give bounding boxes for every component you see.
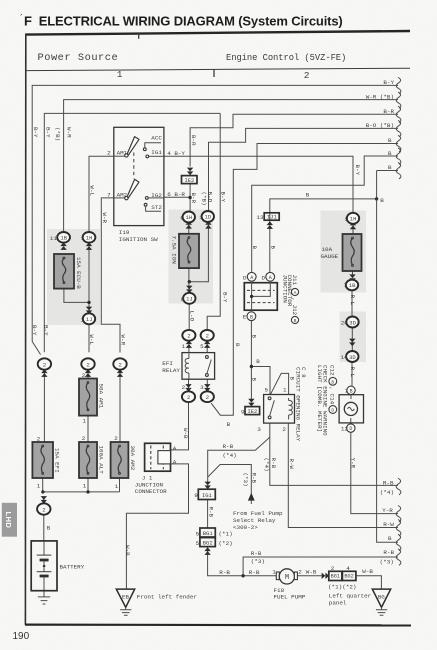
wire comb meter Y-R to right edge bbox=[351, 432, 398, 514]
svg-text:A: A bbox=[250, 275, 253, 281]
svg-text:EB: EB bbox=[122, 594, 129, 601]
svg-text:(*1): (*1) bbox=[219, 530, 233, 537]
fuse 50A AM1 bbox=[79, 379, 97, 416]
svg-text:E: E bbox=[243, 314, 247, 321]
svg-text:W-R: W-R bbox=[101, 213, 108, 224]
svg-text:(*3): (*3) bbox=[380, 558, 394, 565]
fuse 100A ALT bbox=[79, 442, 97, 478]
ignition switch ST2 contact bbox=[144, 203, 147, 206]
svg-text:B-O (*B): B-O (*B) bbox=[366, 122, 394, 129]
fuel pump motor F18 bbox=[276, 572, 279, 580]
svg-text:, C14: , C14 bbox=[329, 387, 336, 405]
connector 5 BG1 box bbox=[200, 528, 215, 537]
bottom border bbox=[25, 623, 411, 626]
svg-text:2: 2 bbox=[114, 435, 118, 442]
fuse 10A GAUGE chain: connector 5(1H) bbox=[350, 222, 356, 230]
ignition switch mechanical link bbox=[133, 153, 135, 179]
svg-text:W-B: W-B bbox=[182, 428, 189, 439]
svg-text:AM1: AM1 bbox=[117, 149, 128, 156]
svg-text:5: 5 bbox=[196, 530, 200, 537]
wire circuit-opening relay pin3 R-B down bbox=[270, 423, 398, 485]
svg-text:GAUGE: GAUGE bbox=[321, 253, 339, 260]
junction dot bus ALT bbox=[86, 490, 89, 493]
svg-text:R-B: R-B bbox=[270, 458, 277, 469]
svg-text:3D: 3D bbox=[349, 319, 356, 326]
circuit opening relay box bbox=[264, 395, 295, 424]
svg-text:IJ1: IJ1 bbox=[267, 214, 278, 221]
svg-text:15A EFI: 15A EFI bbox=[53, 448, 60, 473]
junction dot B bbox=[375, 197, 378, 200]
svg-text:Y-R: Y-R bbox=[349, 458, 356, 469]
svg-text:(*3): (*3) bbox=[251, 558, 265, 565]
connector circle 2 (EFI relay top left) bbox=[186, 340, 192, 348]
wire ECU-B fuse bottom to junction bbox=[64, 289, 89, 303]
wire 1H down through junction to 1J bbox=[88, 243, 90, 314]
wire fuel pump to BG1 bbox=[295, 575, 322, 577]
svg-text:3D: 3D bbox=[349, 354, 356, 361]
connector circle 2 (left) bbox=[32, 342, 40, 355]
fuse 15A ECU-B bbox=[54, 254, 74, 289]
svg-text:B-O: B-O bbox=[207, 192, 214, 203]
svg-text:R-B: R-B bbox=[219, 569, 230, 576]
svg-text:B-Y: B-Y bbox=[220, 192, 227, 203]
svg-text:R-B: R-B bbox=[383, 480, 394, 487]
connector circle 2 (EFI relay bottom right) bbox=[204, 384, 210, 392]
svg-text:2: 2 bbox=[43, 361, 46, 368]
svg-text:2: 2 bbox=[182, 384, 186, 391]
junction connector J11/J12 box bbox=[247, 272, 256, 281]
svg-text:(*4): (*4) bbox=[223, 452, 237, 459]
svg-text:1B: 1B bbox=[349, 282, 356, 289]
svg-text:CIRCUIT OPENING RELAY: CIRCUIT OPENING RELAY bbox=[294, 367, 301, 442]
svg-text:R-L: R-L bbox=[349, 367, 356, 378]
connector 1(1J) bbox=[86, 307, 92, 315]
svg-text:B-R: B-R bbox=[190, 135, 197, 146]
svg-text:W-R: W-R bbox=[65, 127, 72, 138]
outer frame: top border bbox=[25, 31, 410, 35]
svg-text:BG: BG bbox=[378, 594, 385, 601]
svg-text:1J: 1J bbox=[86, 316, 93, 323]
svg-text:(*2): (*2) bbox=[342, 584, 356, 591]
ignition switch AM2 lever bbox=[114, 197, 127, 199]
svg-text:11: 11 bbox=[50, 235, 58, 242]
wire from fuel pump select relay R-B(*3) bbox=[208, 465, 252, 494]
connector IJ1 pin13 box bbox=[264, 213, 279, 220]
svg-text:BG1: BG1 bbox=[203, 530, 214, 537]
right edge continuation squiggles top bbox=[396, 77, 401, 94]
wire B-R right-edge loop down to IE2 bbox=[190, 114, 398, 166]
wire BG2 to BG ground bbox=[356, 576, 382, 589]
wire ign IG1 pin4 B-Y to gauge fuse bbox=[164, 156, 353, 213]
svg-text:13: 13 bbox=[256, 214, 264, 221]
svg-text:1H: 1H bbox=[86, 234, 93, 241]
connector 11(1B) bbox=[60, 242, 66, 250]
LHD tab bbox=[2, 503, 17, 537]
connector 7(1B) bbox=[349, 274, 355, 282]
svg-text:2: 2 bbox=[37, 436, 41, 443]
svg-text:B-R: B-R bbox=[383, 108, 394, 115]
svg-text:EFI: EFI bbox=[162, 360, 173, 367]
wire R-B(*3) to right edge bbox=[243, 557, 398, 576]
wire B-Y top loop from left column to right edge bbox=[32, 85, 398, 341]
connector circle 2 (EFI relay bottom left) bbox=[185, 384, 191, 392]
svg-text:B: B bbox=[331, 379, 334, 385]
svg-text:C12: C12 bbox=[329, 365, 336, 376]
svg-text:1: 1 bbox=[117, 69, 123, 80]
ignition switch IG2 contact bbox=[145, 197, 148, 200]
connector circle 2 (right) bbox=[117, 369, 123, 377]
svg-text:BG2: BG2 bbox=[203, 540, 213, 547]
svg-text:RELAY: RELAY bbox=[162, 367, 180, 374]
svg-text:F ELECTRICAL WIRING DIAGRAM (: F ELECTRICAL WIRING DIAGRAM (System Circ… bbox=[24, 14, 343, 29]
svg-text:BATTERY: BATTERY bbox=[60, 564, 85, 571]
svg-text:1H: 1H bbox=[350, 215, 357, 222]
svg-text:Front left fender: Front left fender bbox=[137, 594, 197, 601]
svg-text:M: M bbox=[285, 574, 289, 582]
connector circle 2 (EFI relay top right) bbox=[204, 340, 210, 348]
svg-text:1: 1 bbox=[272, 569, 276, 576]
connector 14(3D) bbox=[346, 351, 358, 362]
connector IE2 pin10 box bbox=[187, 168, 193, 176]
svg-text:B-Y: B-Y bbox=[45, 127, 52, 138]
svg-text:2: 2 bbox=[187, 333, 190, 340]
left border bbox=[24, 34, 26, 625]
svg-text:BG2: BG2 bbox=[344, 574, 353, 580]
svg-text:2: 2 bbox=[82, 435, 86, 442]
svg-text:B: B bbox=[256, 358, 260, 365]
svg-text:D: D bbox=[349, 426, 352, 432]
junction dot B-R bbox=[188, 196, 191, 199]
svg-text:1: 1 bbox=[37, 483, 41, 490]
svg-text:(*B): (*B) bbox=[54, 127, 61, 141]
wire 1J(8) to EFI relay circle bbox=[188, 304, 190, 330]
svg-text:W-R (*B): W-R (*B) bbox=[366, 94, 394, 101]
svg-text:Power Source: Power Source bbox=[38, 52, 119, 64]
wire gauge fuse chain bbox=[351, 224, 353, 424]
wire IE2 to junction to 1H fuse bbox=[189, 184, 191, 213]
svg-text:AM2: AM2 bbox=[117, 192, 128, 199]
wire D(A)/E(B) junction block to relays bbox=[251, 321, 270, 400]
svg-text:(*4): (*4) bbox=[263, 458, 270, 472]
svg-text:R-B: R-B bbox=[250, 473, 257, 484]
svg-text:R-B: R-B bbox=[207, 507, 214, 518]
svg-text:1H: 1H bbox=[186, 214, 193, 221]
wire ign AM2 pin7 W-R bbox=[101, 198, 120, 353]
fuel pump to BG1 arrows bbox=[322, 573, 330, 579]
column tick 1|2 bbox=[213, 69, 215, 77]
svg-text:W-B: W-B bbox=[362, 568, 373, 575]
svg-text:LHD: LHD bbox=[4, 512, 13, 529]
stipple around GAUGE fuse block bbox=[321, 211, 367, 293]
svg-text:2: 2 bbox=[298, 569, 302, 576]
wire B to junction connector D(A) left bbox=[252, 156, 398, 272]
fuse 15A EFI bbox=[32, 442, 53, 478]
wire J1 lower A to EB ground bbox=[126, 464, 188, 589]
svg-text:ACC: ACC bbox=[151, 135, 162, 142]
EFI relay box bbox=[182, 353, 215, 380]
fuse 10A GAUGE bbox=[343, 234, 362, 271]
svg-text:9: 9 bbox=[194, 492, 198, 499]
svg-text:B-Y: B-Y bbox=[43, 325, 50, 336]
svg-text:7.5A IGN: 7.5A IGN bbox=[171, 236, 178, 265]
wire ign AM1 pin2 W-L bbox=[89, 156, 114, 232]
svg-text:1: 1 bbox=[82, 418, 86, 425]
svg-text:, J12: , J12 bbox=[291, 298, 298, 316]
svg-text:B: B bbox=[388, 150, 392, 157]
svg-text:D: D bbox=[331, 408, 334, 414]
wire B via IJ1 down to D(A) right bbox=[270, 171, 398, 273]
svg-text:1: 1 bbox=[182, 343, 186, 350]
ignition switch AM1 lever bbox=[114, 155, 127, 157]
svg-text:CONNECTOR: CONNECTOR bbox=[135, 488, 167, 495]
svg-text:B: B bbox=[380, 197, 384, 204]
EB ground bbox=[116, 589, 134, 607]
fuse element terminal dots bbox=[42, 237, 354, 475]
svg-text:W-B: W-B bbox=[124, 545, 131, 556]
svg-text:D: D bbox=[243, 274, 247, 281]
svg-text:7: 7 bbox=[344, 388, 348, 395]
svg-text:B: B bbox=[227, 421, 231, 428]
svg-text:2: 2 bbox=[331, 565, 335, 572]
stipple around ECU-B fuse block bbox=[47, 229, 100, 325]
svg-text:8: 8 bbox=[181, 296, 185, 303]
circled letter ring bbox=[329, 406, 337, 414]
svg-text:1: 1 bbox=[199, 214, 203, 221]
svg-text:A: A bbox=[269, 275, 272, 281]
combination meter box + check engine lamp bbox=[339, 395, 363, 423]
svg-text:J11: J11 bbox=[291, 275, 298, 286]
svg-text:(*1): (*1) bbox=[328, 584, 342, 591]
svg-text:1B: 1B bbox=[60, 234, 67, 241]
J1 junction connector bbox=[145, 443, 171, 471]
svg-text:R-B: R-B bbox=[223, 443, 234, 450]
wire circuit-opening relay pin2 R-W bbox=[288, 423, 398, 527]
wire W-R(*B) loop to right edge bbox=[64, 100, 398, 232]
junction dot L-O bbox=[188, 280, 191, 283]
svg-text:(*3): (*3) bbox=[242, 473, 249, 487]
svg-text:5: 5 bbox=[196, 540, 200, 547]
wire B (EFI relay out) right-edge loop bbox=[211, 144, 398, 416]
wire B-O(*B) right-edge loop down to 1D bbox=[209, 128, 399, 211]
wire left fuse columns to bus bbox=[43, 371, 120, 492]
svg-text:B-Y: B-Y bbox=[32, 127, 39, 138]
svg-text:R-W: R-W bbox=[288, 459, 295, 470]
wire IGN fuse top from 1H bbox=[188, 223, 190, 234]
svg-text:B: B bbox=[388, 535, 392, 542]
fuse 30A AM2 bbox=[111, 442, 129, 478]
BG ground bbox=[372, 589, 390, 607]
wire ign IG2 pin6 B-R bbox=[164, 196, 190, 198]
svg-text:1J: 1J bbox=[186, 295, 193, 302]
wire IGN fuse bottom to 1J(8) junction bbox=[189, 222, 209, 294]
svg-text:J 1: J 1 bbox=[142, 474, 153, 481]
svg-text:panel: panel bbox=[329, 600, 347, 607]
svg-text:D: D bbox=[262, 274, 266, 281]
header band line bbox=[26, 68, 410, 70]
svg-text:7: 7 bbox=[343, 282, 347, 289]
svg-text:A: A bbox=[294, 290, 297, 296]
svg-text:B: B bbox=[250, 314, 253, 320]
svg-text:1: 1 bbox=[81, 235, 85, 242]
wire B-Y second left vertical to top bbox=[44, 113, 220, 352]
svg-text:1: 1 bbox=[115, 483, 119, 490]
svg-text:B: B bbox=[47, 525, 51, 532]
svg-text:2: 2 bbox=[86, 361, 89, 368]
svg-text:IG2: IG2 bbox=[151, 192, 162, 199]
connector 2 (battery) bbox=[41, 496, 47, 504]
svg-text:Left quarter: Left quarter bbox=[329, 593, 371, 600]
wire W-B EFI relay pin2 to J1 bbox=[171, 403, 189, 450]
svg-text:15A ECU-B: 15A ECU-B bbox=[75, 257, 82, 289]
svg-text:B: B bbox=[350, 388, 353, 394]
circled letter ring bbox=[291, 288, 298, 295]
ignition switch IG1 contact bbox=[146, 155, 149, 158]
svg-text:B: B bbox=[388, 164, 392, 171]
svg-text:A: A bbox=[173, 458, 177, 465]
svg-text:B: B bbox=[251, 246, 258, 250]
fuse 7.5A IGN bbox=[179, 234, 199, 268]
junction dot B bbox=[250, 365, 253, 368]
svg-text:B: B bbox=[270, 246, 277, 250]
svg-text:IGNITION SW: IGNITION SW bbox=[119, 236, 158, 243]
svg-text:12: 12 bbox=[341, 426, 349, 433]
connector 1(1H) bbox=[86, 242, 92, 250]
svg-text:5: 5 bbox=[200, 343, 204, 350]
svg-text:W-L: W-L bbox=[88, 335, 95, 346]
svg-text:14: 14 bbox=[341, 354, 349, 361]
svg-text:1D: 1D bbox=[205, 214, 212, 221]
svg-text:<300-2>: <300-2> bbox=[233, 524, 258, 531]
svg-text:5: 5 bbox=[345, 216, 349, 223]
wire 1J to circle 2 bbox=[88, 324, 90, 352]
arrow from fuel pump select relay bbox=[248, 493, 255, 501]
svg-text:4 B-Y: 4 B-Y bbox=[167, 150, 185, 157]
wire B-Y branch down to EFI relay pin5 circle bbox=[207, 113, 220, 329]
junction dot bus EFI bbox=[41, 490, 44, 493]
svg-text:R-B: R-B bbox=[249, 569, 260, 576]
wire IG1 to BG1/BG2 to fuel pump line bbox=[208, 500, 280, 576]
header divider tick bbox=[138, 33, 140, 39]
svg-text:A: A bbox=[173, 445, 177, 452]
svg-text:R-B: R-B bbox=[251, 550, 262, 557]
svg-text:B-R: B-R bbox=[190, 193, 197, 204]
svg-text:2: 2 bbox=[206, 394, 209, 401]
connector 20(3D) bbox=[346, 317, 358, 328]
svg-text:2: 2 bbox=[304, 70, 310, 81]
svg-text:´: ´ bbox=[20, 13, 23, 23]
svg-text:W-L: W-L bbox=[88, 186, 95, 197]
wire B long vertical down right side bbox=[377, 199, 398, 542]
junction dot W-L bbox=[87, 301, 90, 304]
circled letter ring bbox=[291, 316, 298, 323]
svg-text:Engine Control (5VZ-FE): Engine Control (5VZ-FE) bbox=[226, 53, 346, 63]
svg-text:2: 2 bbox=[282, 426, 286, 433]
svg-text:(*2): (*2) bbox=[219, 540, 233, 547]
svg-text:B: B bbox=[294, 318, 297, 324]
connector 9 IG1 box bbox=[205, 482, 211, 490]
svg-text:20: 20 bbox=[341, 320, 349, 327]
svg-text:2: 2 bbox=[206, 333, 209, 340]
svg-text:ST2: ST2 bbox=[151, 204, 162, 211]
svg-text:B: B bbox=[306, 191, 310, 198]
svg-text:100A ALT: 100A ALT bbox=[97, 446, 104, 475]
svg-text:3: 3 bbox=[200, 384, 204, 391]
connector 1(1D) bbox=[205, 221, 211, 229]
svg-text:IG1: IG1 bbox=[151, 149, 162, 156]
svg-text:From Fuel Pump: From Fuel Pump bbox=[233, 510, 283, 517]
connector 9 IE2 box bbox=[248, 399, 254, 407]
connector circle 2 (mid) bbox=[85, 369, 91, 377]
connector 5 BG2 box bbox=[200, 538, 215, 547]
svg-text:3: 3 bbox=[257, 426, 261, 433]
stipple around IGN fuse block bbox=[169, 210, 214, 304]
wire circuit-opening relay pin1 B stub with leader bbox=[271, 373, 289, 394]
wire R-B branch via diagonal to IG1 connector bbox=[208, 437, 270, 482]
svg-text:IE2: IE2 bbox=[184, 177, 194, 184]
svg-text:W-R: W-R bbox=[120, 335, 127, 346]
svg-text:IE2: IE2 bbox=[247, 408, 257, 415]
svg-text:R-W: R-W bbox=[383, 521, 394, 528]
ignition switch ACC contact bbox=[143, 148, 146, 151]
svg-text:IG1: IG1 bbox=[202, 492, 213, 499]
svg-text:B-Y: B-Y bbox=[383, 79, 394, 86]
svg-text:1: 1 bbox=[83, 483, 87, 490]
svg-text:2: 2 bbox=[118, 361, 121, 368]
svg-text:FUEL PUMP: FUEL PUMP bbox=[274, 594, 306, 601]
svg-text:9: 9 bbox=[241, 408, 245, 415]
svg-text:190: 190 bbox=[13, 631, 30, 642]
svg-text:50A AM1: 50A AM1 bbox=[97, 384, 104, 409]
svg-text:2: 2 bbox=[107, 149, 111, 156]
connector 12(D) bbox=[347, 424, 355, 432]
svg-text:6: 6 bbox=[180, 215, 184, 222]
connector 8(1J) bbox=[186, 286, 192, 294]
svg-text:CHECK ENGINE WARNING: CHECK ENGINE WARNING bbox=[321, 365, 328, 436]
svg-text:Select Relay: Select Relay bbox=[233, 517, 276, 524]
battery bbox=[31, 541, 57, 591]
svg-text:2: 2 bbox=[82, 372, 86, 379]
svg-text:B: B bbox=[388, 137, 392, 144]
svg-text:10A: 10A bbox=[322, 246, 333, 253]
svg-text:L-O: L-O bbox=[188, 311, 195, 322]
svg-text:Y-R: Y-R bbox=[382, 507, 393, 514]
connector 7(B) bbox=[347, 386, 355, 394]
svg-text:BG1: BG1 bbox=[331, 574, 340, 580]
svg-text:B-Y: B-Y bbox=[354, 165, 361, 176]
wire EFI relay pins to circles bbox=[189, 341, 208, 391]
svg-text:B-Y: B-Y bbox=[31, 325, 38, 336]
wire bus to battery bbox=[43, 497, 45, 541]
svg-text:B-Y: B-Y bbox=[221, 292, 228, 303]
svg-text:R-L: R-L bbox=[349, 295, 356, 306]
svg-text:6 B-R: 6 B-R bbox=[167, 191, 185, 198]
svg-text:2: 2 bbox=[187, 394, 190, 401]
svg-text:B: B bbox=[251, 335, 258, 339]
connector BG2 (right) bbox=[342, 571, 356, 580]
svg-text:1: 1 bbox=[283, 386, 287, 393]
connector BG1 (right) bbox=[329, 571, 342, 580]
svg-text:30A AM2: 30A AM2 bbox=[129, 446, 136, 471]
circled letter ring bbox=[329, 377, 337, 385]
ignition switch I19 box bbox=[114, 127, 164, 225]
junction dot R-B bbox=[241, 574, 244, 577]
svg-text:1: 1 bbox=[80, 316, 84, 323]
svg-text:(*4): (*4) bbox=[380, 489, 394, 496]
svg-text:B: B bbox=[234, 343, 241, 347]
connector 6(1H) bbox=[186, 221, 192, 229]
svg-text:7: 7 bbox=[107, 192, 111, 199]
stipple around 3D connectors bbox=[340, 312, 367, 363]
